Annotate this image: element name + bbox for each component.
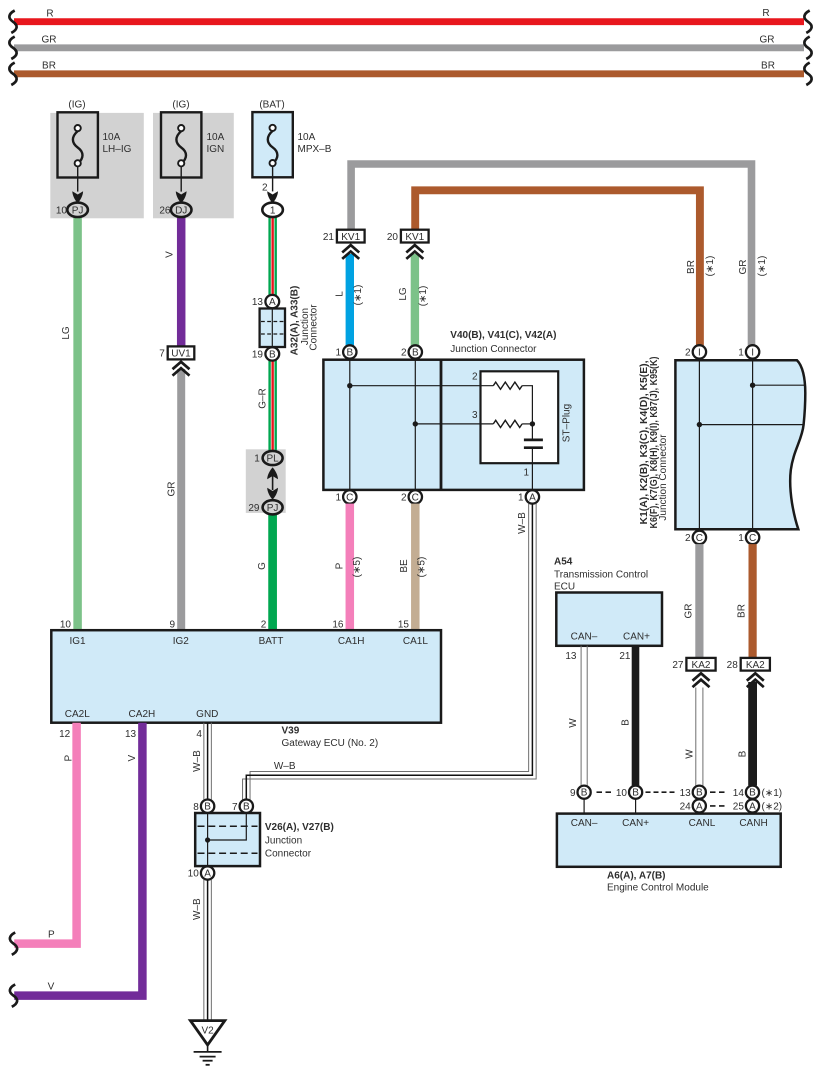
- svg-text:BR: BR: [761, 61, 775, 72]
- svg-text:CAN+: CAN+: [622, 818, 649, 829]
- svg-text:13: 13: [565, 651, 577, 662]
- terminal V26 8(B): [193, 800, 214, 813]
- svg-text:C: C: [346, 492, 353, 503]
- svg-text:10: 10: [60, 619, 72, 630]
- wire (9B to ECM): [583, 799, 585, 814]
- svg-text:PJ: PJ: [72, 205, 84, 216]
- fuse MPX-B: [252, 100, 331, 217]
- wire G-R (fuse MPX-B to A32 and A32 to PL): [268, 217, 277, 452]
- svg-text:21: 21: [619, 651, 631, 662]
- svg-text:G: G: [257, 562, 268, 570]
- ST-Plug: [347, 371, 572, 490]
- svg-text:B: B: [696, 788, 703, 799]
- pin V39 2 BATT: [259, 619, 284, 647]
- terminal V40 1(C): [335, 490, 356, 503]
- svg-text:KV1: KV1: [405, 232, 424, 243]
- terminal K 2(I): [685, 345, 706, 358]
- svg-text:8: 8: [193, 802, 199, 813]
- svg-text:3: 3: [472, 410, 478, 421]
- svg-text:12: 12: [59, 729, 71, 740]
- svg-text:1: 1: [738, 348, 744, 359]
- terminal K 1(C): [738, 531, 759, 544]
- pin V39 12 CA2L: [59, 709, 90, 740]
- wire GR (K 2(C) to KA2 27): [695, 544, 703, 658]
- svg-text:BR: BR: [42, 61, 56, 72]
- terminal ECM 10(B): [616, 786, 642, 799]
- svg-text:24: 24: [680, 802, 692, 813]
- svg-text:Junction Connector: Junction Connector: [658, 434, 669, 521]
- wire B (A54 CAN+ to ECM 10(B)): [632, 646, 640, 786]
- svg-text:(∗5): (∗5): [417, 557, 428, 578]
- svg-text:V: V: [127, 755, 138, 762]
- svg-text:A: A: [696, 801, 703, 812]
- svg-text:20: 20: [387, 232, 399, 243]
- svg-text:10A: 10A: [207, 132, 225, 143]
- svg-text:15: 15: [398, 619, 410, 630]
- svg-text:CA1H: CA1H: [338, 636, 365, 647]
- svg-text:Engine Control Module: Engine Control Module: [607, 883, 709, 894]
- svg-text:GR: GR: [42, 35, 57, 46]
- svg-text:V: V: [165, 251, 176, 258]
- svg-text:ST–Plug: ST–Plug: [562, 404, 573, 442]
- svg-text:(IG): (IG): [172, 100, 189, 111]
- dashes 10B-13B: [646, 791, 676, 793]
- svg-text:B: B: [737, 750, 748, 757]
- terminal V40 1(B): [335, 345, 356, 358]
- svg-text:2: 2: [401, 348, 407, 359]
- svg-text:V39: V39: [282, 726, 300, 737]
- svg-text:(BAT): (BAT): [259, 100, 284, 111]
- svg-text:2: 2: [401, 493, 407, 504]
- fuse IGN shaded block: [153, 113, 234, 218]
- fuse IGN: [159, 100, 224, 217]
- terminal ECM 9(B): [570, 786, 591, 799]
- wire W (KA2 27 to ECM 13(B)): [696, 688, 703, 786]
- svg-text:GR: GR: [760, 35, 775, 46]
- svg-text:Connector: Connector: [265, 848, 312, 859]
- svg-text:I: I: [698, 347, 701, 358]
- svg-text:C: C: [696, 533, 703, 544]
- gateway ECU V39: [51, 630, 441, 749]
- svg-text:GND: GND: [196, 709, 218, 720]
- svg-text:W–B: W–B: [192, 898, 203, 920]
- svg-text:P: P: [334, 562, 345, 569]
- pin V39 13 CA2H: [125, 709, 155, 740]
- svg-text:A54: A54: [554, 557, 573, 568]
- svg-text:A: A: [529, 492, 536, 503]
- svg-text:W–B: W–B: [517, 512, 528, 534]
- svg-text:GR: GR: [683, 604, 694, 619]
- junction connector K1-K95: [639, 357, 806, 530]
- svg-text:1: 1: [254, 454, 260, 465]
- svg-text:2: 2: [472, 372, 478, 383]
- svg-text:4: 4: [196, 729, 202, 740]
- wire W-B (V26 10(A) to ground V2): [204, 880, 212, 1020]
- terminal V40 2(B): [401, 345, 422, 358]
- pin V39 4 GND: [196, 709, 218, 740]
- connector marker UV1: [173, 362, 190, 376]
- bus wire R: [9, 8, 811, 33]
- svg-text:CA2H: CA2H: [129, 709, 156, 720]
- svg-text:1: 1: [335, 493, 341, 504]
- svg-text:2: 2: [685, 348, 691, 359]
- pin V39 9 IG2: [169, 619, 189, 647]
- pin V39 10 IG1: [60, 619, 86, 647]
- dashes 9B-10B: [597, 791, 612, 793]
- terminal K 1(I): [738, 345, 759, 358]
- connector marker KV1 21: [342, 245, 359, 259]
- svg-text:W–B: W–B: [192, 750, 203, 772]
- svg-text:Gateway ECU (No. 2): Gateway ECU (No. 2): [282, 738, 379, 749]
- svg-text:1: 1: [738, 533, 744, 544]
- svg-text:CAN+: CAN+: [623, 631, 650, 642]
- svg-text:28: 28: [727, 660, 739, 671]
- svg-text:PL: PL: [266, 454, 279, 465]
- svg-text:9: 9: [169, 619, 175, 630]
- svg-text:BE: BE: [399, 559, 410, 573]
- svg-text:GR: GR: [738, 260, 749, 275]
- dashes 13B-14B: [710, 791, 725, 793]
- svg-text:27: 27: [672, 660, 684, 671]
- svg-text:B: B: [581, 788, 588, 799]
- svg-text:KA2: KA2: [692, 660, 711, 671]
- svg-text:2: 2: [261, 619, 267, 630]
- svg-text:10A: 10A: [103, 132, 121, 143]
- svg-text:(∗5): (∗5): [352, 557, 363, 578]
- terminal ECM 14(B): [733, 786, 782, 799]
- wire W (A54 CAN- to ECM 9(B)): [581, 646, 587, 786]
- svg-text:16: 16: [332, 619, 344, 630]
- squiggle of V tail: [10, 984, 17, 1006]
- wire V (V39 CA2H to tail): [14, 723, 142, 996]
- wire P (V40 1(C) to V39 CA1H): [346, 504, 355, 631]
- svg-text:BR: BR: [737, 604, 748, 618]
- svg-text:9: 9: [570, 788, 576, 799]
- svg-text:B: B: [243, 802, 250, 813]
- svg-text:25: 25: [733, 802, 745, 813]
- svg-text:V: V: [48, 981, 55, 992]
- svg-text:C: C: [412, 492, 419, 503]
- wire LG (fuse LH-IG to V39 IG1): [73, 217, 82, 631]
- svg-text:10A: 10A: [298, 132, 316, 143]
- svg-text:LG: LG: [398, 287, 409, 301]
- svg-text:1: 1: [270, 205, 276, 216]
- wire L (KV1 21 to V40 1(B)): [346, 254, 354, 345]
- svg-text:CANH: CANH: [739, 818, 767, 829]
- svg-text:ECU: ECU: [554, 582, 575, 593]
- terminal ECM 25(A): [733, 799, 782, 812]
- svg-text:PJ: PJ: [267, 503, 279, 514]
- svg-text:13: 13: [252, 297, 264, 308]
- svg-text:A: A: [204, 868, 211, 879]
- connector UV1: [159, 346, 194, 359]
- svg-text:L: L: [334, 291, 345, 297]
- svg-text:13: 13: [125, 729, 137, 740]
- svg-text:2: 2: [262, 182, 268, 193]
- wire BE (V40 2(C) to V39 CA1L): [411, 504, 420, 631]
- svg-text:(∗1): (∗1): [705, 256, 716, 277]
- fuse LH-IG shaded block: [50, 113, 144, 218]
- svg-text:B: B: [204, 802, 211, 813]
- ground V2: [190, 1021, 224, 1065]
- svg-text:B: B: [412, 347, 419, 358]
- wire BR (K 1(C) to KA2 28): [748, 544, 756, 658]
- wire W-B (V39 GND to V26 8(B)): [204, 723, 212, 800]
- svg-text:BATT: BATT: [259, 636, 284, 647]
- svg-text:Connector: Connector: [309, 304, 320, 351]
- wire GR (KV1 21 to K junction 1(I)): [351, 164, 751, 345]
- terminal ECM 24(A): [680, 799, 706, 812]
- wire GR (UV1 to V39 IG2): [177, 369, 185, 630]
- svg-text:13: 13: [680, 788, 692, 799]
- svg-text:G–R: G–R: [257, 388, 268, 409]
- connector KV1 20: [387, 230, 429, 243]
- wire BR (KV1 20 to K junction 2(I)): [415, 190, 700, 345]
- wire P (V39 CA2L to tail): [14, 723, 76, 944]
- pin V39 15 CA1L: [398, 619, 428, 647]
- connector PL/PJ: [248, 451, 282, 514]
- wire (10B to ECM): [635, 799, 637, 814]
- svg-text:LH–IG: LH–IG: [103, 144, 132, 155]
- svg-text:GR: GR: [166, 482, 177, 497]
- svg-text:A6(A), A7(B): A6(A), A7(B): [607, 870, 666, 881]
- svg-text:CAN–: CAN–: [571, 818, 598, 829]
- dashes 24A-25A: [710, 805, 725, 807]
- svg-text:DJ: DJ: [175, 205, 187, 216]
- svg-text:UV1: UV1: [171, 349, 191, 360]
- svg-text:W: W: [684, 749, 695, 759]
- svg-text:CANL: CANL: [689, 818, 716, 829]
- svg-text:A: A: [749, 801, 756, 812]
- svg-text:1: 1: [523, 468, 529, 479]
- terminal V26 10(A): [188, 866, 215, 879]
- svg-text:2: 2: [685, 533, 691, 544]
- svg-text:Junction: Junction: [265, 835, 302, 846]
- svg-text:(∗1): (∗1): [418, 286, 429, 307]
- svg-text:IG1: IG1: [69, 636, 86, 647]
- connector KA2 27: [672, 658, 715, 687]
- svg-text:(∗1): (∗1): [757, 256, 768, 277]
- svg-text:7: 7: [159, 349, 165, 360]
- svg-text:1: 1: [518, 493, 524, 504]
- svg-text:10: 10: [188, 869, 200, 880]
- svg-text:W: W: [568, 718, 579, 728]
- junction connector V40/V41/V42: [323, 330, 584, 490]
- connector KA2 28: [727, 658, 770, 687]
- wire G (PJ to V39 BATT): [268, 514, 277, 631]
- svg-text:1: 1: [335, 348, 341, 359]
- svg-text:19: 19: [252, 349, 264, 360]
- squiggle of P tail: [10, 932, 17, 954]
- svg-text:(∗1): (∗1): [353, 285, 364, 306]
- svg-text:B: B: [346, 347, 353, 358]
- svg-text:B: B: [749, 788, 756, 799]
- svg-text:(∗1): (∗1): [762, 788, 783, 799]
- svg-text:KV1: KV1: [341, 232, 360, 243]
- svg-text:V26(A), V27(B): V26(A), V27(B): [265, 822, 334, 833]
- svg-text:29: 29: [248, 503, 260, 514]
- svg-text:21: 21: [323, 232, 335, 243]
- svg-text:Transmission Control: Transmission Control: [554, 570, 648, 581]
- connector KV1 21: [323, 230, 365, 243]
- svg-text:KA2: KA2: [746, 660, 765, 671]
- pin V39 16 CA1H: [332, 619, 364, 647]
- svg-text:LG: LG: [61, 326, 72, 340]
- terminal V40 1(A): [518, 490, 539, 503]
- junction connector V26/V27: [195, 813, 334, 866]
- terminal K 2(C): [685, 531, 706, 544]
- svg-text:7: 7: [232, 802, 238, 813]
- svg-text:10: 10: [56, 205, 68, 216]
- svg-text:(IG): (IG): [68, 100, 85, 111]
- svg-text:B: B: [269, 349, 276, 360]
- svg-text:P: P: [48, 929, 55, 940]
- svg-text:Junction Connector: Junction Connector: [450, 344, 537, 355]
- fuse LH-IG: [56, 100, 132, 217]
- svg-text:R: R: [46, 9, 53, 20]
- svg-text:V40(B), V41(C), V42(A): V40(B), V41(C), V42(A): [450, 330, 556, 341]
- engine control module A6/A7: [557, 814, 781, 894]
- svg-text:P: P: [63, 755, 74, 762]
- svg-text:B: B: [632, 788, 639, 799]
- wire LG (KV1 20 to V40 2(B)): [411, 254, 419, 345]
- svg-text:A32(A), A33(B): A32(A), A33(B): [290, 286, 301, 356]
- svg-text:CAN–: CAN–: [571, 631, 598, 642]
- connector PL/PJ shaded block: [246, 449, 286, 513]
- svg-text:CA1L: CA1L: [403, 636, 428, 647]
- svg-text:CA2L: CA2L: [65, 709, 90, 720]
- svg-text:C: C: [749, 533, 756, 544]
- svg-text:14: 14: [733, 788, 745, 799]
- svg-text:I: I: [751, 347, 754, 358]
- svg-text:MPX–B: MPX–B: [298, 144, 332, 155]
- bus wire GR: [9, 35, 811, 59]
- svg-text:W–B: W–B: [274, 761, 296, 772]
- terminal V26 7(B): [232, 800, 253, 813]
- connector marker KV1 20: [406, 245, 423, 259]
- wire W-B (V40 1(A) to V26 7(B)): [243, 504, 537, 800]
- bus wire BR: [9, 61, 811, 85]
- svg-text:IGN: IGN: [207, 144, 225, 155]
- wire V (fuse IGN to UV1): [177, 217, 186, 347]
- svg-text:BR: BR: [686, 260, 697, 274]
- svg-text:IG2: IG2: [173, 636, 190, 647]
- svg-text:(∗2): (∗2): [762, 802, 783, 813]
- svg-text:V2: V2: [201, 1025, 214, 1036]
- terminal ECM 13(B): [680, 786, 706, 799]
- wire B (KA2 28 to ECM 14(B)): [748, 682, 757, 786]
- svg-text:R: R: [762, 8, 769, 19]
- junction connector A32: [252, 286, 320, 361]
- svg-text:B: B: [621, 719, 632, 726]
- svg-text:26: 26: [159, 205, 171, 216]
- terminal V40 2(C): [401, 490, 422, 503]
- svg-text:A: A: [269, 297, 276, 308]
- svg-text:10: 10: [616, 788, 628, 799]
- transmission control ECU A54: [554, 557, 662, 662]
